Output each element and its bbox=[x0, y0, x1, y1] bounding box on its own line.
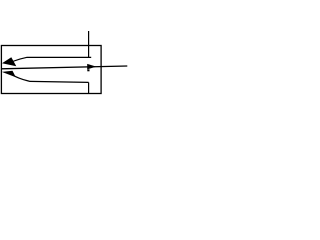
arrowhead tail tick bbox=[87, 69, 89, 71]
wire: upper ray toward left wall bbox=[13, 57, 92, 61]
arrowhead upper-left bbox=[2, 57, 16, 66]
wire: middle output line bbox=[1, 66, 127, 69]
wire: lower ray toward left wall bbox=[13, 75, 88, 82]
arrowhead lower-left bbox=[2, 71, 16, 78]
wire: vertical feed line entering top bbox=[88, 31, 90, 57]
wire: vertical segment to bottom wall bbox=[88, 82, 90, 93]
arrowhead right-pointing on middle line bbox=[87, 64, 96, 70]
cavity box bbox=[1, 46, 101, 94]
